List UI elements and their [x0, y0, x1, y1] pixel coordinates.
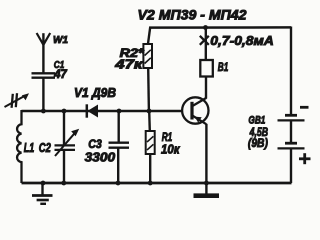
resistor R1 — [146, 131, 155, 154]
wire: B1 to transistor collector — [205, 77, 207, 99]
svg-text:V1 Д9В: V1 Д9В — [74, 86, 116, 100]
wire: emitter down to bottom rail — [205, 124, 207, 183]
wire: top rail — [150, 26, 291, 29]
ground (earth) symbol left — [32, 183, 53, 204]
junction dot: C2 / bottom rail — [61, 181, 66, 186]
diode V1 — [87, 104, 98, 117]
break mark X (current measuring point) — [200, 36, 209, 45]
transistor V2 — [182, 97, 208, 124]
wire: C2 branch lower — [63, 150, 65, 183]
junction dot: C3 / mid rail — [117, 109, 122, 114]
wire: C1 down to mid rail — [42, 78, 44, 111]
label C3 3300 — [85, 137, 116, 165]
wire: bottom rail — [22, 182, 292, 185]
wire: C3 branch lower — [117, 148, 119, 183]
label: battery plus sign — [299, 153, 311, 164]
label GB1 4,5В (9В) — [248, 114, 268, 149]
junction dot: C1 / mid rail — [41, 109, 46, 114]
wire: C2 branch upper — [63, 111, 65, 145]
wire: B1 column from top rail through X to B1 — [205, 28, 207, 61]
wire: R2 bottom to mid rail — [147, 68, 150, 111]
variable capacitor C2 — [55, 129, 80, 156]
wire: R2 top (from top rail) — [148, 27, 150, 45]
svg-text:0,7-0,8мА: 0,7-0,8мА — [210, 33, 274, 48]
label R2* 47к — [114, 48, 144, 72]
wire: R1 bottom to bottom rail — [149, 154, 151, 183]
junction dot: emitter / bottom rail — [204, 181, 209, 186]
label C1 47 — [53, 59, 67, 81]
label: battery minus sign — [300, 106, 309, 109]
svg-text:3300: 3300 — [85, 150, 116, 165]
svg-text:В1: В1 — [218, 62, 229, 74]
wire: mid rail (tank / detector / base line) — [22, 110, 183, 112]
label 0,7-0,8мА — [210, 33, 274, 48]
resistor R2 — [143, 44, 152, 68]
capacitor C3 — [109, 143, 130, 148]
label V2 МП39-МП42 — [138, 7, 248, 22]
battery GB1 — [278, 115, 305, 183]
ground (chassis bar) under emitter — [194, 183, 220, 196]
wire: right column from top rail down to battery — [290, 27, 292, 116]
svg-text:10к: 10к — [161, 142, 181, 157]
label W1 — [53, 34, 68, 46]
junction dot: ground tap / bottom rail — [41, 181, 46, 186]
junction dot: C2 / mid rail — [62, 109, 67, 114]
inductor L1 — [17, 110, 21, 183]
svg-text:C2: C2 — [39, 141, 51, 155]
svg-text:47к: 47к — [114, 58, 143, 72]
junction dot: C3 / bottom rail — [116, 181, 121, 186]
junction dot: R1 / bottom rail — [148, 181, 153, 186]
svg-text:47: 47 — [53, 69, 67, 81]
svg-text:V2 МП39 - МП42: V2 МП39 - МП42 — [138, 7, 248, 22]
svg-text:L1: L1 — [24, 141, 35, 155]
svg-text:(9В): (9В) — [248, 136, 268, 150]
terminal X: antenna/earth jack with arrow — [5, 93, 30, 108]
label L1 — [24, 141, 35, 155]
label V1 Д9В — [74, 86, 116, 100]
label B1 — [218, 62, 229, 74]
antenna W1 — [37, 33, 51, 73]
wire: C3 branch upper — [117, 111, 119, 143]
junction dot: R2-R1 / mid rail — [147, 109, 152, 114]
headphone B1 — [200, 60, 213, 77]
junction dot: top rail / B1 column — [203, 25, 208, 30]
label C2 — [39, 141, 51, 155]
svg-text:W1: W1 — [53, 34, 68, 46]
capacitor C1 — [32, 73, 56, 77]
label R1 10к — [161, 132, 181, 157]
wire: R1 top from mid rail — [148, 111, 151, 131]
